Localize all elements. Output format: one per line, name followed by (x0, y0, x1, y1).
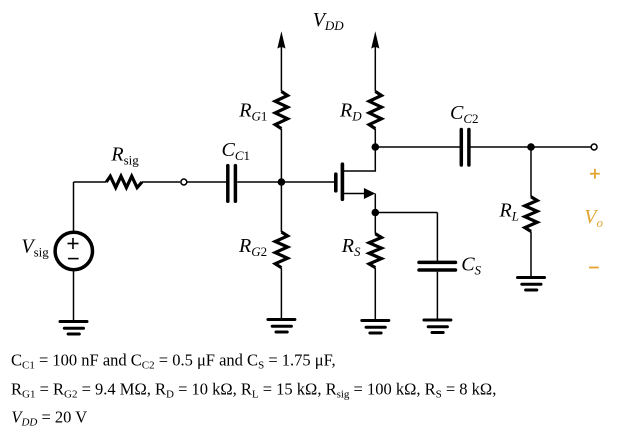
svg-text:CC1 = 100 nF and CC2 = 0.5 μF: CC1 = 100 nF and CC2 = 0.5 μF and CS = 1… (11, 351, 336, 372)
